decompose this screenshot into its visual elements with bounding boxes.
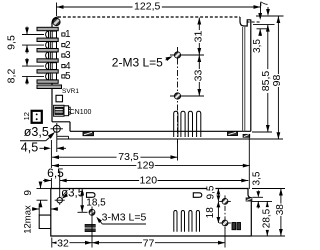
svg-text:18,5: 18,5 bbox=[86, 198, 106, 209]
svg-text:3,5: 3,5 bbox=[252, 171, 263, 185]
svg-text:7: 7 bbox=[260, 1, 271, 7]
svg-text:9,5: 9,5 bbox=[206, 185, 217, 199]
svg-text:2-M3 L=5: 2-M3 L=5 bbox=[112, 55, 163, 69]
svg-text:12max: 12max bbox=[23, 205, 34, 234]
svg-text:9: 9 bbox=[23, 190, 34, 196]
svg-text:4,5: 4,5 bbox=[21, 141, 38, 155]
svg-text:31: 31 bbox=[193, 31, 205, 43]
svg-text:18: 18 bbox=[205, 207, 216, 219]
svg-text:98: 98 bbox=[271, 75, 283, 87]
svg-text:3: 3 bbox=[65, 50, 71, 61]
svg-text:3,5: 3,5 bbox=[252, 39, 263, 53]
svg-text:12: 12 bbox=[22, 112, 31, 120]
svg-text:CN100: CN100 bbox=[70, 109, 92, 116]
svg-text:38: 38 bbox=[275, 204, 286, 216]
svg-text:28,5: 28,5 bbox=[261, 208, 272, 228]
svg-text:2: 2 bbox=[65, 40, 70, 51]
svg-text:3-M3 L=5: 3-M3 L=5 bbox=[102, 212, 147, 224]
svg-text:9,5: 9,5 bbox=[6, 35, 18, 50]
svg-text:33: 33 bbox=[193, 70, 205, 82]
svg-text:120: 120 bbox=[140, 174, 158, 186]
svg-text:5: 5 bbox=[65, 71, 71, 82]
svg-text:ø3,5: ø3,5 bbox=[24, 125, 49, 139]
svg-text:32: 32 bbox=[57, 237, 69, 249]
svg-text:8,2: 8,2 bbox=[6, 69, 18, 84]
svg-text:129: 129 bbox=[137, 159, 155, 171]
svg-text:77: 77 bbox=[143, 237, 155, 249]
svg-text:SVR1: SVR1 bbox=[62, 88, 79, 95]
svg-text:1: 1 bbox=[65, 29, 70, 40]
svg-text:6,5: 6,5 bbox=[47, 166, 64, 180]
svg-text:122,5: 122,5 bbox=[134, 0, 160, 12]
